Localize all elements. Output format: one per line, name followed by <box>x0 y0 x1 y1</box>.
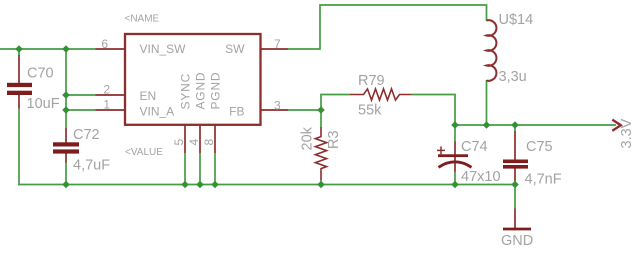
wire: bottom ground rail <box>18 184 515 186</box>
pin 8 lead <box>214 125 216 153</box>
IC body outline <box>125 34 261 125</box>
capacitor C72 bottom pin <box>65 153 67 163</box>
capacitor C74 plus sign <box>437 147 445 155</box>
pin 6 lead <box>96 48 126 50</box>
svg-text:7: 7 <box>274 37 281 51</box>
resistor R3 zigzag <box>315 127 326 180</box>
svg-text:C74: C74 <box>461 139 488 155</box>
wire: C70 bottom to ground rail <box>18 108 20 185</box>
node: pin5 at rail <box>181 181 189 189</box>
wire: C74 top <box>454 125 456 142</box>
svg-text:R3: R3 <box>326 130 342 149</box>
svg-text:FB: FB <box>229 105 244 119</box>
node: inductor at output <box>483 121 491 129</box>
supply arrow 3.3V <box>612 120 621 131</box>
node: FB <box>317 106 325 114</box>
node: pin8 at rail <box>211 181 219 189</box>
svg-text:3,3u: 3,3u <box>499 69 527 85</box>
wire: vertical branch x=66 <box>65 49 67 129</box>
capacitor C72 plates <box>53 142 79 153</box>
capacitor C74 straight plate <box>438 154 468 157</box>
svg-text:4: 4 <box>187 139 201 146</box>
wire: SW to loop up <box>288 5 487 49</box>
wire: R3 top <box>320 110 322 127</box>
wire: pin 8 lower <box>214 153 216 185</box>
svg-text:55k: 55k <box>358 103 382 119</box>
node: C72 at rail <box>62 181 70 189</box>
svg-text:VIN_SW: VIN_SW <box>140 42 187 56</box>
svg-text:C70: C70 <box>27 66 54 82</box>
svg-text:<VALUE: <VALUE <box>125 147 163 158</box>
svg-text:C75: C75 <box>526 139 553 155</box>
svg-text:U$14: U$14 <box>499 12 534 28</box>
svg-text:R79: R79 <box>358 73 385 89</box>
capacitor C72 top pin <box>65 128 67 143</box>
node: C75 at output <box>511 121 519 129</box>
wire: inductor bottom to output rail <box>486 80 488 125</box>
resistor R79 zigzag <box>350 89 411 100</box>
wire: pin 4 lower <box>199 153 201 185</box>
wire: C70 top stub <box>18 49 20 56</box>
node: pin4 at rail <box>196 181 204 189</box>
svg-text:AGND: AGND <box>194 72 208 110</box>
pin 2 lead <box>96 94 126 96</box>
node: R3 at rail <box>317 181 325 189</box>
svg-text:SYNC: SYNC <box>179 73 193 110</box>
pin 4 lead <box>199 125 201 153</box>
node: input at branch <box>62 45 70 53</box>
wire: FB to node <box>288 109 321 111</box>
node: pin2 branch <box>62 91 70 99</box>
inductor U$14 coil <box>487 20 497 81</box>
capacitor C70 plates <box>7 83 32 95</box>
wire: C74 bottom to rail <box>454 171 456 185</box>
svg-text:EN: EN <box>140 89 157 103</box>
capacitor C70 bottom pin <box>18 95 20 109</box>
wire: output rail 3.3V <box>455 124 616 126</box>
pin 5 lead <box>184 125 186 153</box>
svg-text:10uF: 10uF <box>27 96 60 112</box>
wire: to pin 1 <box>66 109 96 111</box>
capacitor C75 plates <box>503 160 528 169</box>
svg-text:4,7nF: 4,7nF <box>525 172 562 188</box>
ground pin <box>514 209 516 229</box>
node: GND at rail <box>511 181 519 189</box>
svg-text:8: 8 <box>202 139 216 146</box>
pin 7 lead <box>261 48 289 50</box>
wire: R79 right to output rail <box>411 95 455 126</box>
svg-text:5: 5 <box>172 139 186 146</box>
node: pin1 branch <box>62 106 70 114</box>
pin 3 lead <box>261 109 289 111</box>
capacitor C74 pin through <box>454 142 456 172</box>
wire: C75 top <box>514 125 516 132</box>
pin 1 lead <box>96 109 126 111</box>
capacitor C70 top pin <box>18 55 20 83</box>
svg-text:GND: GND <box>501 233 533 249</box>
svg-text:SW: SW <box>225 42 245 56</box>
wire: rail to GND <box>514 185 516 210</box>
wire: top-left input rail <box>0 48 96 50</box>
svg-text:2: 2 <box>103 83 110 97</box>
node: C74 at rail <box>451 181 459 189</box>
svg-text:1: 1 <box>103 98 110 112</box>
svg-text:6: 6 <box>101 37 108 51</box>
node: R79/C74 at output <box>451 121 459 129</box>
wire: FB node up and to R79 <box>321 95 350 111</box>
svg-text:47x10: 47x10 <box>461 169 501 185</box>
capacitor C74 curved plate <box>439 162 472 168</box>
svg-text:<NAME: <NAME <box>125 13 160 24</box>
capacitor C75 bottom pin <box>514 168 516 181</box>
svg-text:PGND: PGND <box>209 72 223 110</box>
svg-text:4,7uF: 4,7uF <box>73 158 110 174</box>
ground bar <box>503 228 531 231</box>
svg-text:20k: 20k <box>300 126 316 150</box>
wire: pin 5 lower <box>184 153 186 185</box>
capacitor C75 top pin <box>514 131 516 160</box>
wire: R3 bottom to rail <box>320 180 322 185</box>
svg-text:3.3V: 3.3V <box>619 118 635 148</box>
wire: to pin 2 <box>66 94 96 96</box>
svg-text:3: 3 <box>274 99 281 113</box>
wire: C72 bottom to rail <box>65 162 67 185</box>
svg-text:C72: C72 <box>73 127 100 143</box>
svg-text:VIN_A: VIN_A <box>140 105 175 119</box>
node: input at C70 <box>15 45 23 53</box>
wire: C75 bottom to rail <box>514 180 516 185</box>
